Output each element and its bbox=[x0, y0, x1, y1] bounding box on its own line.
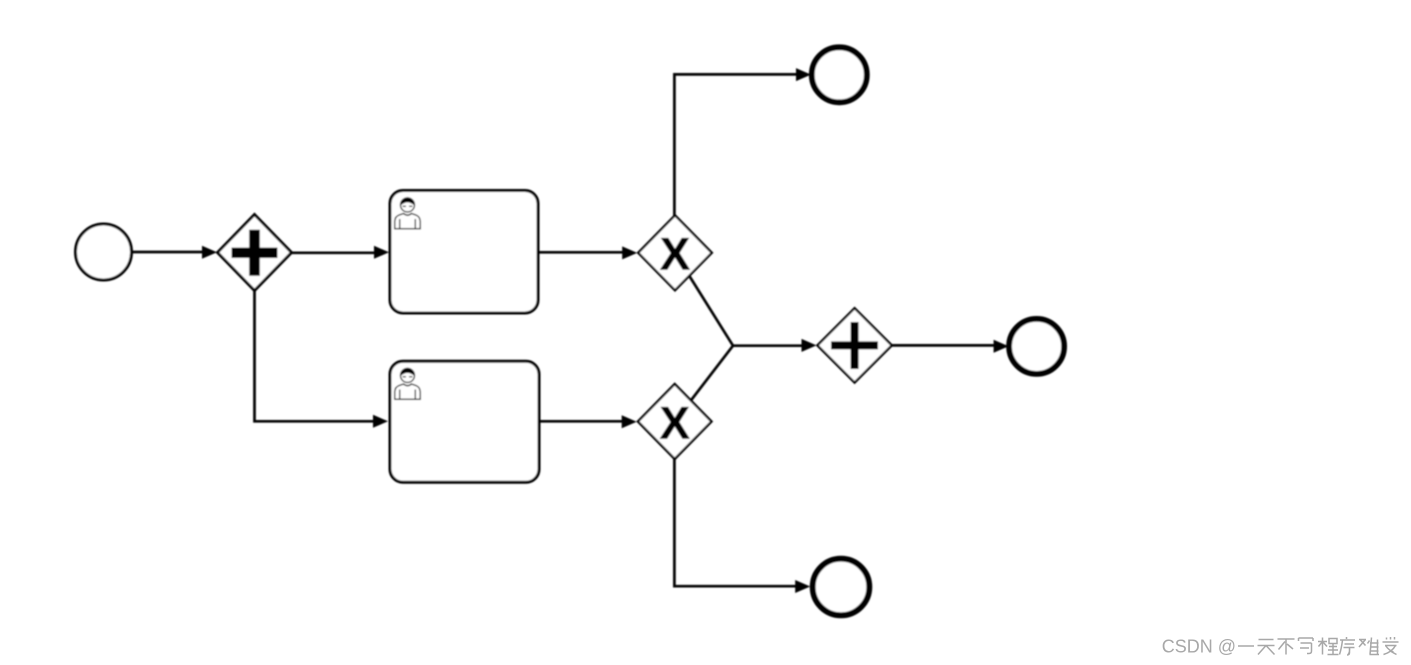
wire flow10 arrowhead bbox=[622, 415, 637, 428]
svg-text:X: X bbox=[660, 229, 690, 280]
user task T2 icon eyes bbox=[403, 376, 413, 378]
glyph bu bbox=[1278, 639, 1295, 655]
user task T1 icon head bbox=[401, 198, 415, 212]
glyph yi bbox=[1238, 645, 1254, 647]
svg-text:CSDN @: CSDN @ bbox=[1162, 637, 1236, 657]
user task T2 icon arm lines bbox=[400, 390, 416, 400]
wire flow10 T2->gateway X2 bbox=[539, 420, 623, 423]
wire flow8 G2->middle end event bbox=[892, 344, 995, 347]
wire flow9 arrowhead bbox=[373, 415, 388, 428]
svg-text:X: X bbox=[660, 397, 690, 448]
wire flow1 arrowhead bbox=[202, 246, 217, 259]
user task T1 icon eyes bbox=[403, 205, 413, 207]
wire flow1 start->gateway G1 bbox=[132, 251, 204, 254]
wire flow4 X1->top end event bbox=[674, 74, 797, 216]
wire flow9 G1->task T2 bbox=[255, 291, 375, 422]
wire flow2 G1->task T1 bbox=[292, 251, 375, 254]
user task T1 icon torso bbox=[395, 214, 420, 229]
glyph shou bbox=[1383, 637, 1399, 655]
wire flow5 X1->merge node diagonal bbox=[675, 253, 733, 346]
glyph nan bbox=[1359, 638, 1379, 655]
user task T1 box bbox=[390, 191, 538, 314]
wire flow11 X2->bottom end event bbox=[674, 459, 796, 586]
wire flow6 X2->merge node diagonal bbox=[675, 346, 733, 422]
wire flow4 arrowhead bbox=[796, 68, 811, 81]
end event top circle bbox=[812, 47, 867, 102]
glyph xu bbox=[1340, 637, 1356, 655]
wire flow3 T1->gateway X1 bbox=[538, 251, 623, 254]
start event circle bbox=[76, 224, 132, 280]
wire flow3 arrowhead bbox=[622, 246, 637, 259]
parallel gateway G2 plus marker bbox=[831, 322, 878, 369]
end event middle circle bbox=[1009, 319, 1064, 374]
parallel gateway G2 diamond bbox=[817, 308, 891, 382]
user task T2 icon torso bbox=[395, 384, 420, 399]
glyph cheng bbox=[1318, 638, 1339, 655]
glyph tian bbox=[1258, 640, 1275, 655]
wire flow11 arrowhead bbox=[795, 580, 810, 593]
wire flow2 arrowhead bbox=[374, 246, 389, 259]
wire flow7 arrowhead bbox=[802, 339, 817, 352]
wire flow7 merge node->gateway G2 bbox=[733, 344, 803, 347]
wire flow8 arrowhead bbox=[994, 340, 1009, 353]
parallel gateway G1 diamond bbox=[218, 215, 292, 291]
user task T2 icon hair bbox=[400, 368, 414, 376]
user task T2 box bbox=[390, 361, 539, 482]
exclusive gateway X2 diamond bbox=[638, 384, 712, 459]
glyph xie bbox=[1299, 638, 1314, 654]
end event bottom circle bbox=[813, 559, 870, 616]
user task T2 icon head bbox=[401, 369, 415, 383]
user task T1 icon arm lines bbox=[400, 219, 416, 229]
watermark chinese glyphs bbox=[1238, 637, 1399, 655]
parallel gateway G1 plus marker bbox=[232, 230, 278, 276]
user task T1 icon hair bbox=[400, 197, 414, 205]
exclusive gateway X1 diamond bbox=[638, 215, 712, 290]
